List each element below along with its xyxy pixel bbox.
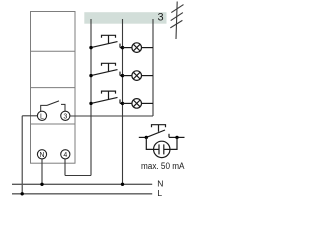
svg-text:3: 3 [157, 12, 163, 24]
svg-text:max. 50 mA: max. 50 mA [141, 161, 185, 171]
green conduit bar [84, 12, 166, 24]
terminal L [37, 111, 46, 120]
L bus wire [12, 193, 152, 195]
junction dot N wire on N bus [40, 183, 43, 186]
junction dot bus2 on N bus [121, 183, 124, 186]
3-conductor hatch symbol [170, 2, 183, 40]
push-button S2 [91, 63, 123, 75]
lamp E3 [123, 99, 154, 109]
timer device box U1 [31, 12, 76, 164]
junction dot S3 left [89, 102, 92, 105]
svg-text:L: L [157, 188, 162, 198]
terminal 4 [61, 150, 70, 159]
svg-text:L: L [40, 114, 44, 121]
junction dot S4 left [145, 136, 148, 139]
junction dot S3 right [121, 102, 124, 105]
svg-text:N: N [39, 152, 44, 159]
wire L feed to terminal L [22, 116, 37, 194]
svg-text:3: 3 [63, 114, 67, 121]
wire terminal N to N bus [41, 159, 43, 184]
junction dot S2 right [121, 74, 124, 77]
junction dot S4 right [175, 136, 178, 139]
junction dot S1 left [89, 46, 92, 49]
relay contact K1 inside box [41, 101, 65, 111]
terminal 3 [61, 111, 70, 120]
junction dot L feed on L bus [21, 192, 24, 195]
push-button S3 [91, 91, 123, 103]
svg-text:4: 4 [63, 152, 67, 159]
lamp E1 [123, 43, 154, 53]
junction dot S2 left [89, 74, 92, 77]
wire bus3 lamp return to contact 3 [70, 19, 153, 116]
wire bus1 from terminal 4 to buttons [65, 19, 91, 176]
wire bus2 lamp feed to N [122, 19, 124, 184]
lamp E2 [123, 71, 154, 81]
terminal N [37, 150, 46, 159]
glow lamp H1 of illuminated button [146, 137, 177, 157]
N bus wire [12, 183, 152, 185]
illuminated push-button S4 [139, 125, 185, 138]
push-button S1 [91, 35, 123, 47]
junction dot S1 right [121, 46, 124, 49]
